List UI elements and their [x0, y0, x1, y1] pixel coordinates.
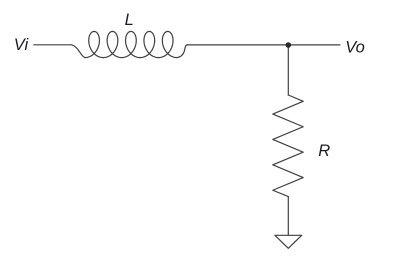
svg-text:Vi: Vi: [14, 36, 30, 54]
wire Vi lead: [34, 44, 72, 46]
wire inductor to Vo: [187, 44, 340, 46]
ground: [275, 235, 302, 248]
svg-text:L: L: [125, 11, 134, 29]
svg-text:R: R: [318, 142, 330, 160]
wire node down to resistor: [287, 45, 289, 95]
resistor R zigzag: [273, 95, 303, 197]
inductor L: [72, 31, 188, 57]
wire resistor to ground: [287, 197, 289, 236]
node junction dot: [286, 42, 292, 48]
svg-text:Vo: Vo: [345, 38, 365, 56]
